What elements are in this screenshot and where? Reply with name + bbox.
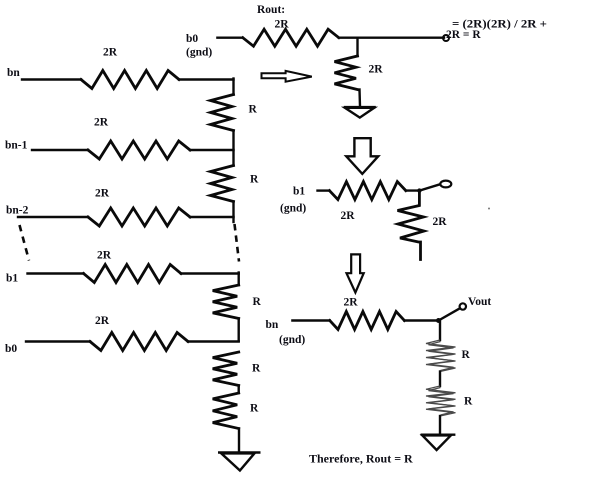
wire bn resistor to bus — [179, 78, 234, 80]
resistor 2R (top, horizontal) — [243, 29, 339, 46]
svg-text:R: R — [253, 296, 262, 308]
svg-text:2R: 2R — [94, 117, 109, 129]
ground (bottom right) — [421, 435, 456, 450]
svg-text:bn: bn — [7, 67, 20, 79]
wire junction down — [356, 38, 358, 56]
resistor R (bus, between bn and bn-1) — [211, 95, 234, 131]
svg-text:bn: bn — [266, 319, 279, 331]
wire b1 resistor to bus — [181, 272, 239, 274]
terminal circle (top right) — [443, 35, 449, 41]
svg-text:Rout:: Rout: — [257, 4, 285, 16]
svg-text:R: R — [252, 363, 261, 375]
resistor R (bus, between b1 and b0) — [213, 285, 239, 319]
wire to ground — [358, 90, 361, 107]
svg-text:b1: b1 — [293, 186, 305, 198]
svg-text:2R: 2R — [433, 216, 448, 228]
resistor 2R (middle, vertical) — [398, 191, 425, 260]
wire resistor to junction — [404, 319, 438, 321]
svg-text:R: R — [250, 174, 259, 186]
wire b0 gnd to resistor — [217, 37, 242, 39]
wire resistor to output terminal — [339, 37, 444, 39]
wire bus segment — [237, 386, 239, 394]
resistor 2R (bn branch) — [81, 71, 179, 89]
svg-text:(gnd): (gnd) — [280, 203, 306, 215]
svg-text:R: R — [464, 396, 473, 408]
node junction Vout — [436, 318, 441, 323]
resistor 2R (bn-1 branch) — [88, 141, 190, 159]
wire bus segment to bn-2 — [232, 202, 234, 223]
wire bn to resistor — [292, 319, 329, 321]
svg-text:bn-2: bn-2 — [6, 205, 29, 217]
terminal circle Vout — [460, 303, 466, 309]
wire junction down — [439, 321, 441, 341]
svg-text:b1: b1 — [6, 273, 18, 285]
wire b0 input — [26, 340, 90, 342]
wire bus segment to b0 — [237, 319, 239, 342]
wire b1 to resistor — [318, 189, 330, 191]
arrow (block, down #2) — [347, 254, 364, 292]
wire bn-2 resistor to bus — [190, 216, 234, 218]
svg-text:Vout: Vout — [468, 296, 491, 308]
wire bus to ground — [238, 429, 240, 453]
svg-text:2R: 2R — [95, 188, 110, 200]
svg-text:2R = R: 2R = R — [446, 29, 481, 41]
wire bn-2 input — [18, 216, 88, 218]
wire between hatched resistors — [439, 372, 441, 387]
wire bus top segment — [232, 79, 234, 95]
decorative dot — [488, 208, 490, 210]
resistor 2R (b0 branch) — [90, 333, 188, 351]
svg-text:R: R — [250, 403, 259, 415]
wire bus segment — [232, 131, 234, 166]
resistor 2R (bn-2 branch) — [88, 208, 190, 226]
svg-text:2R: 2R — [275, 19, 290, 31]
wire dashed ladder continuation (left) — [20, 225, 30, 261]
ground (top right) — [344, 107, 376, 118]
wire junction to Vout terminal — [439, 309, 460, 321]
wire junction to terminal — [419, 184, 440, 190]
svg-text:R: R — [462, 349, 471, 361]
resistor R (bottom, hatched upper) — [426, 340, 456, 372]
svg-text:2R: 2R — [344, 297, 359, 309]
arrow (block, down #1) — [346, 138, 378, 174]
terminal ellipse (middle) — [440, 181, 451, 188]
wire bn-1 resistor to bus — [190, 149, 234, 151]
ground (ladder bottom) — [218, 453, 261, 471]
wire b1 input — [28, 272, 84, 274]
resistor R (bottom, hatched lower) — [426, 386, 456, 416]
resistor 2R (b1 branch) — [84, 265, 182, 283]
resistor 2R (bottom, horizontal) — [330, 312, 405, 330]
wire dashed bus continuation — [235, 224, 240, 262]
wire bn-1 input — [32, 149, 88, 151]
svg-text:2R: 2R — [97, 250, 112, 262]
svg-text:2R: 2R — [95, 315, 110, 327]
svg-text:R: R — [249, 104, 258, 116]
svg-text:b0: b0 — [186, 33, 198, 45]
svg-text:Therefore, Rout = R: Therefore, Rout = R — [309, 452, 413, 466]
node junction b1 output — [417, 188, 421, 192]
resistor R (bus, between bn-1 and bn-2) — [211, 166, 234, 202]
svg-text:(gnd): (gnd) — [279, 334, 305, 346]
svg-text:(gnd): (gnd) — [186, 47, 212, 59]
resistor 2R (top, vertical) — [335, 56, 358, 90]
svg-text:bn-1: bn-1 — [5, 140, 28, 152]
svg-text:2R: 2R — [103, 47, 118, 59]
wire bus segment below b1 — [237, 273, 239, 286]
arrow (block, right) — [262, 71, 312, 82]
wire to ground — [439, 416, 441, 435]
svg-text:b0: b0 — [5, 343, 17, 355]
wire bn input — [22, 78, 81, 80]
resistor R (bus, below b0, lower) — [213, 393, 239, 429]
wire b0 resistor to bus — [188, 340, 239, 342]
svg-text:2R: 2R — [369, 64, 384, 76]
resistor 2R (middle, horizontal) — [329, 182, 405, 200]
wire resistor to junction — [406, 189, 420, 191]
svg-text:2R: 2R — [341, 210, 356, 222]
resistor R (bus, below b0, upper) — [213, 352, 239, 386]
